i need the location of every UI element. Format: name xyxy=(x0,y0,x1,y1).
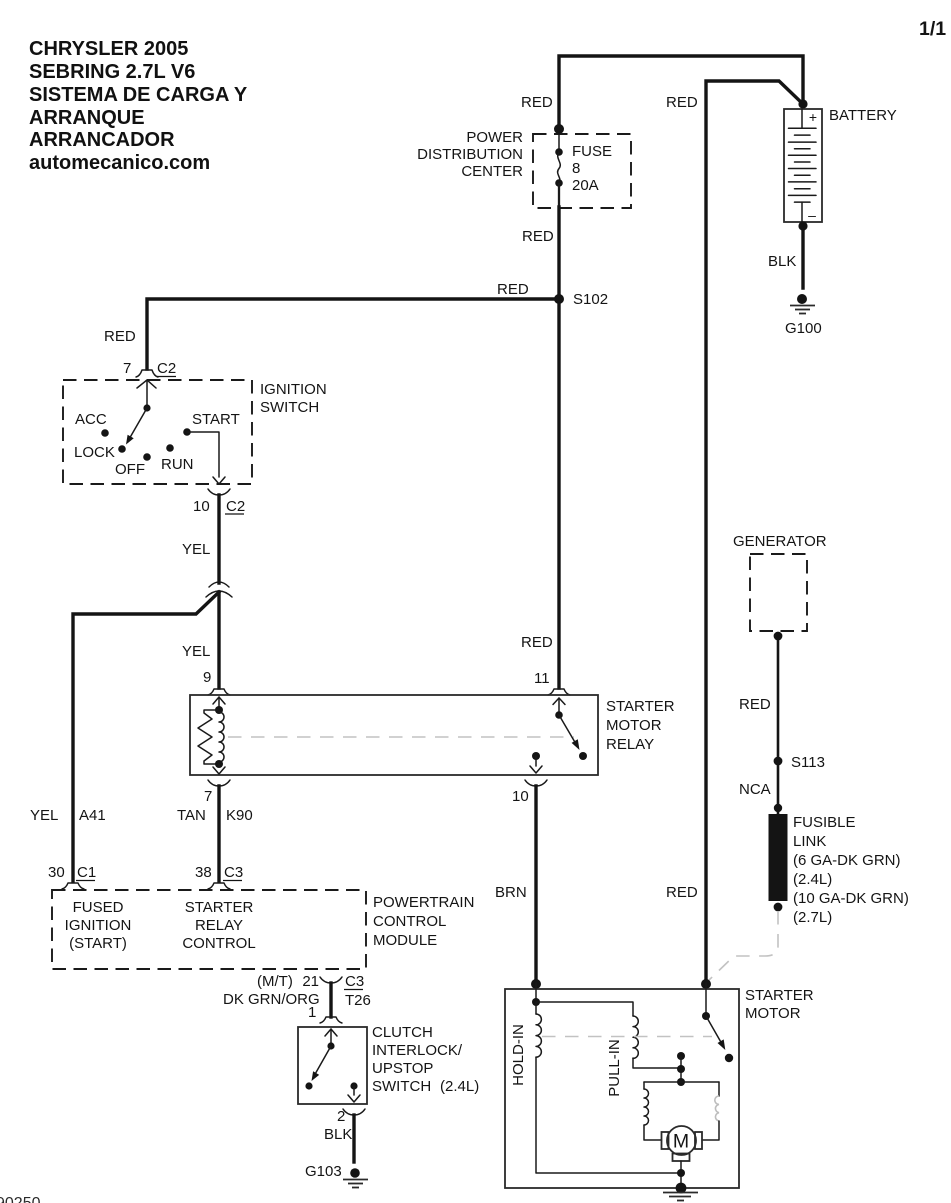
starter solenoid hold-in winding xyxy=(510,983,681,1173)
svg-text:SWITCH: SWITCH xyxy=(260,399,319,416)
svg-text:MODULE: MODULE xyxy=(373,932,437,949)
svg-text:IGNITION: IGNITION xyxy=(260,381,327,398)
svg-text:CHRYSLER 2005: CHRYSLER 2005 xyxy=(29,38,188,60)
mechanical link solenoid (dashed) xyxy=(542,1036,712,1038)
svg-text:FUSED: FUSED xyxy=(73,899,124,916)
svg-text:POWERTRAIN: POWERTRAIN xyxy=(373,894,474,911)
node fusible link bottom xyxy=(774,903,783,912)
connector C2 pin 7 xyxy=(123,360,176,377)
svg-text:automecanico.com: automecanico.com xyxy=(29,152,210,174)
svg-text:STARTER: STARTER xyxy=(185,899,254,916)
svg-text:YEL: YEL xyxy=(182,643,210,660)
starter motor box xyxy=(505,987,814,1188)
svg-text:(2.4L): (2.4L) xyxy=(440,1078,479,1095)
svg-text:BLK: BLK xyxy=(768,253,796,270)
relay coil (resistor + inductor) xyxy=(198,697,225,774)
svg-text:ARRANCADOR: ARRANCADOR xyxy=(29,129,175,151)
splice (Y) xyxy=(206,582,232,597)
ground G103 xyxy=(305,1163,368,1188)
wire PCM pin 21 to clutch switch xyxy=(329,983,332,1017)
clutch interlock switch box xyxy=(298,1024,479,1104)
connector C2 pin 10 xyxy=(193,489,245,515)
svg-text:BRN: BRN xyxy=(495,884,527,901)
svg-text:A41: A41 xyxy=(79,807,106,824)
fusible link xyxy=(769,814,788,901)
svg-text:S113: S113 xyxy=(791,754,825,771)
svg-text:DK GRN/ORG: DK GRN/ORG xyxy=(223,991,320,1008)
node starter hold-in junction xyxy=(531,979,541,989)
svg-text:(2.4L): (2.4L) xyxy=(793,871,832,888)
svg-text:RED: RED xyxy=(521,634,553,651)
svg-text:CONTROL: CONTROL xyxy=(373,913,446,930)
svg-text:CLUTCH: CLUTCH xyxy=(372,1024,433,1041)
svg-text:+: + xyxy=(809,109,817,125)
svg-text:HOLD-IN: HOLD-IN xyxy=(510,1024,527,1086)
wire splice branch to PCM pin 30 xyxy=(73,592,219,881)
svg-text:(10 GA-DK GRN): (10 GA-DK GRN) xyxy=(793,890,909,907)
title block xyxy=(29,38,248,174)
relay contacts xyxy=(530,698,587,773)
node fusible link top xyxy=(774,804,782,812)
svg-text:7: 7 xyxy=(204,788,212,805)
svg-text:ARRANQUE: ARRANQUE xyxy=(29,107,145,129)
connector PCM pin 30 C1 xyxy=(48,864,96,889)
wire battery+ to starter motor (long RED feed) xyxy=(706,81,803,983)
svg-text:INTERLOCK/: INTERLOCK/ xyxy=(372,1042,463,1059)
svg-text:C2: C2 xyxy=(157,360,176,377)
link fusible link to starter feed (dashed) xyxy=(707,911,778,982)
svg-text:STARTER: STARTER xyxy=(745,987,814,1004)
svg-text:START: START xyxy=(192,411,240,428)
svg-text:C1: C1 xyxy=(77,864,96,881)
svg-text:C2: C2 xyxy=(226,498,245,515)
wire fuse to S102 to relay pin 11 xyxy=(557,207,560,688)
svg-text:FUSE: FUSE xyxy=(572,143,612,160)
svg-text:10: 10 xyxy=(512,788,529,805)
svg-text:RED: RED xyxy=(666,94,698,111)
ignition switch mechanism xyxy=(126,380,156,445)
wire S102 to ignition switch xyxy=(147,299,559,369)
svg-text:LOCK: LOCK xyxy=(74,444,115,461)
node starter feed junction xyxy=(701,979,711,989)
svg-text:BLK: BLK xyxy=(324,1126,352,1143)
svg-text:(START): (START) xyxy=(69,935,127,952)
svg-text:RED: RED xyxy=(522,228,554,245)
svg-text:90250: 90250 xyxy=(0,1195,41,1203)
connector relay pin 11 xyxy=(548,689,570,695)
starter motor relay box xyxy=(190,695,675,775)
wire START contact to pin 10 xyxy=(187,432,225,484)
motor M1 xyxy=(662,1126,703,1188)
splice S113 xyxy=(774,757,783,766)
svg-text:SEBRING 2.7L V6: SEBRING 2.7L V6 xyxy=(29,61,195,83)
wire battery+ to fuse top xyxy=(559,56,803,129)
battery B1 xyxy=(784,109,822,223)
wire battery negative to G100 xyxy=(801,226,804,288)
starter motor internal node column xyxy=(677,1052,685,1086)
svg-text:SWITCH: SWITCH xyxy=(372,1078,431,1095)
svg-text:RED: RED xyxy=(666,884,698,901)
svg-text:M: M xyxy=(673,1131,689,1153)
connector PCM pin 38 C3 xyxy=(195,864,243,889)
svg-text:–: – xyxy=(808,207,816,223)
mechanical link (dashed) xyxy=(228,736,574,738)
contact LOCK xyxy=(118,445,126,453)
svg-text:BATTERY: BATTERY xyxy=(829,107,897,124)
connector relay pin 10 xyxy=(525,780,547,786)
svg-text:SISTEMA DE CARGA Y: SISTEMA DE CARGA Y xyxy=(29,84,248,106)
svg-text:38: 38 xyxy=(195,864,212,881)
connector PCM pin 21 C3 xyxy=(257,973,371,1009)
svg-text:RELAY: RELAY xyxy=(195,917,243,934)
svg-text:2: 2 xyxy=(337,1108,345,1125)
node battery negative xyxy=(798,221,807,230)
svg-text:TAN: TAN xyxy=(177,807,206,824)
svg-text:8: 8 xyxy=(572,160,580,177)
svg-text:OFF: OFF xyxy=(115,461,145,478)
svg-text:PULL-IN: PULL-IN xyxy=(606,1039,623,1097)
svg-text:DISTRIBUTION: DISTRIBUTION xyxy=(417,146,523,163)
wire generator to S113 xyxy=(777,636,780,761)
svg-text:(M/T): (M/T) xyxy=(257,973,293,990)
node generator output xyxy=(774,632,783,641)
svg-text:RED: RED xyxy=(104,328,136,345)
wire relay pin 10 to starter motor xyxy=(534,786,537,983)
wire S113 to fusible link xyxy=(777,761,780,814)
svg-text:NCA: NCA xyxy=(739,781,771,798)
power distribution center box xyxy=(417,129,631,208)
svg-text:YEL: YEL xyxy=(30,807,58,824)
svg-text:G103: G103 xyxy=(305,1163,342,1180)
starter solenoid contacts xyxy=(702,983,733,1062)
svg-text:GENERATOR: GENERATOR xyxy=(733,533,827,550)
svg-text:(2.7L): (2.7L) xyxy=(793,909,832,926)
svg-text:C3: C3 xyxy=(224,864,243,881)
node battery positive xyxy=(798,99,807,108)
connector clutch pin 2 xyxy=(337,1108,365,1125)
node fuse input xyxy=(554,124,564,134)
contact RUN xyxy=(166,444,174,452)
label FUSED IGNITION (START) xyxy=(65,899,132,952)
svg-text:21: 21 xyxy=(302,973,319,990)
contact ACC xyxy=(101,429,109,437)
svg-text:1/1: 1/1 xyxy=(919,18,946,40)
contact START xyxy=(183,428,191,436)
svg-text:IGNITION: IGNITION xyxy=(65,917,132,934)
label STARTER RELAY CONTROL xyxy=(182,899,255,952)
svg-text:CONTROL: CONTROL xyxy=(182,935,255,952)
svg-text:S102: S102 xyxy=(573,291,608,308)
svg-text:MOTOR: MOTOR xyxy=(606,717,662,734)
label FUSIBLE LINK xyxy=(793,814,909,926)
splice S102 xyxy=(554,294,564,304)
svg-text:LINK: LINK xyxy=(793,833,826,850)
wire clutch pin 2 to G103 xyxy=(352,1115,355,1162)
svg-text:UPSTOP: UPSTOP xyxy=(372,1060,433,1077)
svg-text:RED: RED xyxy=(521,94,553,111)
connector relay pin 7 xyxy=(208,780,230,786)
starter solenoid pull-in winding xyxy=(536,1002,681,1097)
svg-text:FUSIBLE: FUSIBLE xyxy=(793,814,856,831)
svg-text:POWER: POWER xyxy=(466,129,523,146)
svg-text:9: 9 xyxy=(203,669,211,686)
powertrain control module box xyxy=(52,890,474,969)
svg-text:10: 10 xyxy=(193,498,210,515)
svg-text:(6 GA-DK GRN): (6 GA-DK GRN) xyxy=(793,852,901,869)
svg-text:T26: T26 xyxy=(345,992,371,1009)
svg-text:30: 30 xyxy=(48,864,65,881)
ignition switch box xyxy=(63,380,327,484)
ground starter motor case xyxy=(663,1183,698,1201)
svg-text:G100: G100 xyxy=(785,320,822,337)
svg-text:YEL: YEL xyxy=(182,541,210,558)
connector clutch pin 1 xyxy=(308,1004,342,1023)
svg-text:ACC: ACC xyxy=(75,411,107,428)
motor field windings xyxy=(644,1082,719,1140)
svg-text:K90: K90 xyxy=(226,807,253,824)
connector relay pin 9 xyxy=(208,689,230,695)
fuse F8 20A xyxy=(555,129,612,208)
svg-text:RUN: RUN xyxy=(161,456,194,473)
wire pin 10 C2 to splice xyxy=(217,495,220,583)
clutch switch mechanism xyxy=(305,1029,360,1102)
ground G100 xyxy=(785,294,822,337)
contact OFF xyxy=(143,453,151,461)
svg-text:C3: C3 xyxy=(345,973,364,990)
svg-text:RELAY: RELAY xyxy=(606,736,654,753)
svg-text:RED: RED xyxy=(497,281,529,298)
svg-text:11: 11 xyxy=(534,670,550,687)
wire splice to relay pin 9 xyxy=(217,592,220,688)
svg-text:STARTER: STARTER xyxy=(606,698,675,715)
svg-text:MOTOR: MOTOR xyxy=(745,1005,801,1022)
svg-text:7: 7 xyxy=(123,360,131,377)
generator box xyxy=(733,533,827,631)
wire relay pin 7 to PCM pin 38 xyxy=(217,786,220,881)
svg-text:RED: RED xyxy=(739,696,771,713)
svg-text:1: 1 xyxy=(308,1004,316,1021)
svg-text:20A: 20A xyxy=(572,177,599,194)
svg-text:CENTER: CENTER xyxy=(461,163,523,180)
